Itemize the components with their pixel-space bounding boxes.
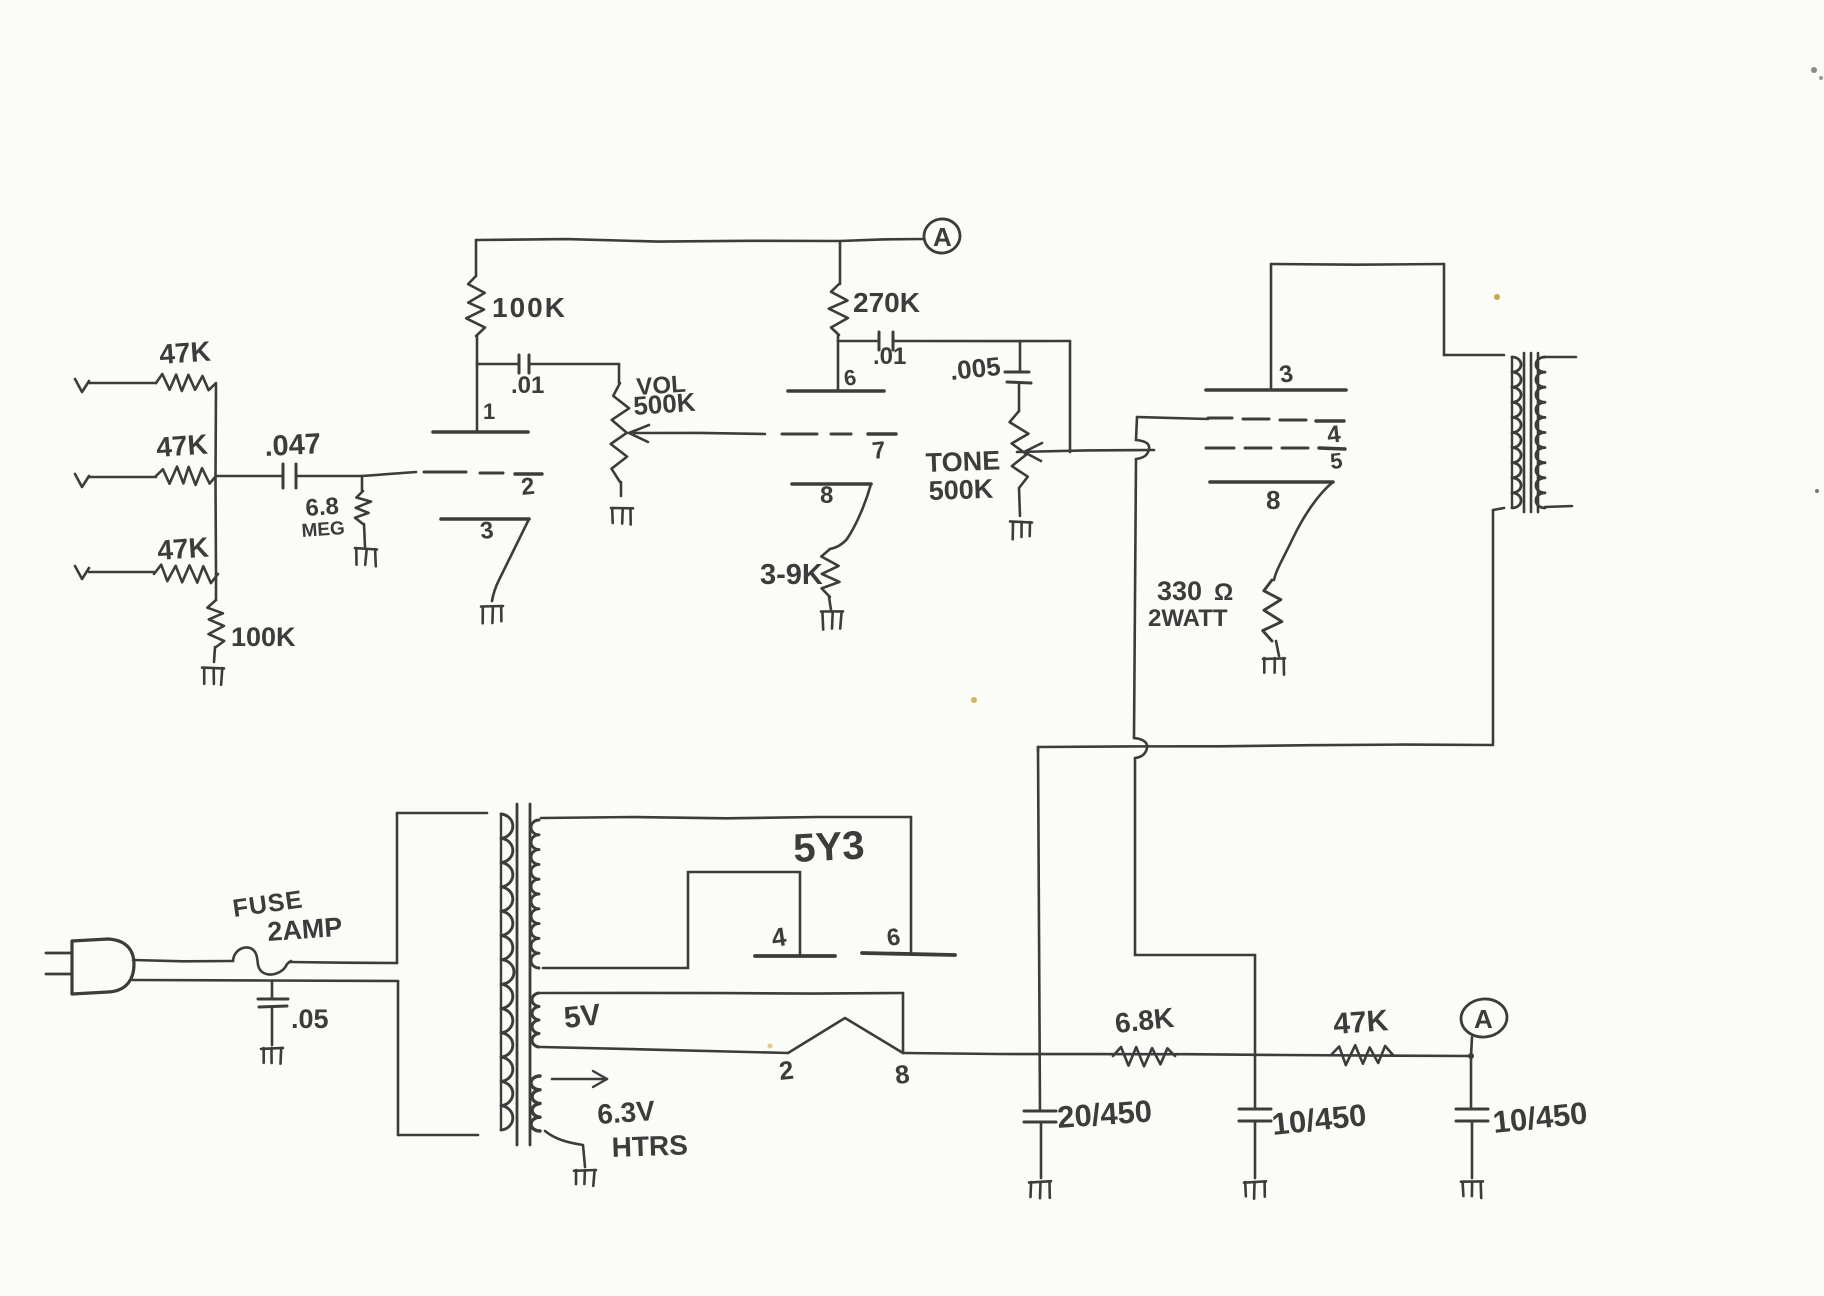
svg-text:3-9K: 3-9K <box>760 559 823 591</box>
wire cathode to 330ohm <box>1274 482 1333 580</box>
vol pot wiper arrow <box>629 425 649 433</box>
ground (6.3V) <box>574 1169 596 1172</box>
resistor R2 47K (input 2) <box>156 467 216 485</box>
wire junction to C2 <box>477 363 517 366</box>
ground (20/450) <box>1029 1181 1051 1182</box>
svg-text:A: A <box>933 222 952 252</box>
resistor R10 6.8K <box>1113 1047 1175 1066</box>
svg-text:2WATT: 2WATT <box>1148 605 1228 632</box>
wire C2 to volume pot <box>531 363 619 366</box>
output transformer secondary <box>1536 357 1545 508</box>
screen feed wire with crossover hops <box>1136 417 1137 440</box>
svg-text:Ω: Ω <box>1214 579 1233 606</box>
5Y3 plate pin 6 <box>862 953 955 955</box>
svg-text:270K: 270K <box>853 287 920 318</box>
input jack 1 <box>75 379 89 392</box>
ground (10/450) <box>1244 1181 1266 1182</box>
resistor R8 3-9K <box>821 549 839 597</box>
wire input3 to R3 <box>89 571 154 574</box>
capacitor C4 .005 <box>1019 341 1022 370</box>
svg-text:47K: 47K <box>156 531 209 566</box>
svg-text:.047: .047 <box>264 428 322 463</box>
wire input2 to R2 <box>89 476 156 479</box>
svg-text:6.8: 6.8 <box>305 493 340 522</box>
wire plate to 100K junction <box>476 364 479 432</box>
PT 6.3V winding <box>531 1076 540 1131</box>
svg-text:6.8K: 6.8K <box>1113 1002 1175 1039</box>
wire B+ top run (node A) <box>476 239 840 242</box>
triode V1b cathode pin 8 <box>792 482 871 486</box>
svg-text:.01: .01 <box>511 372 544 399</box>
svg-text:3: 3 <box>479 517 495 545</box>
output tube screen pin 4 (dashed) <box>1137 417 1208 419</box>
svg-text:47K: 47K <box>158 335 211 370</box>
plug prong 2 <box>46 973 72 976</box>
ground (10/450 node A) <box>1461 1180 1483 1183</box>
resistor R3 47K (input 3) <box>154 565 218 583</box>
AC neutral wire <box>133 980 398 981</box>
HV winding bottom lead to 5Y3 pin 4 <box>543 967 688 970</box>
OT primary bottom lead <box>1493 508 1504 510</box>
capacitor C3 .01 <box>878 332 881 350</box>
capacitor C1 .047 <box>282 464 285 488</box>
wire cathode to ground <box>492 519 529 601</box>
5Y3 plate pin 4 <box>755 954 835 958</box>
PT primary bus <box>396 813 399 963</box>
svg-text:500K: 500K <box>632 387 696 421</box>
ground (cathode V1a) <box>481 605 503 608</box>
svg-text:2: 2 <box>520 473 536 501</box>
svg-text:MEG: MEG <box>301 518 346 542</box>
wire tone wiper to output grid <box>1017 450 1154 452</box>
svg-text:A: A <box>1474 1004 1493 1034</box>
power transformer primary winding <box>500 814 502 1130</box>
OT secondary leads <box>1545 356 1576 359</box>
wire C3 to tone node <box>895 340 1070 343</box>
output transformer core <box>1523 353 1526 512</box>
svg-text:20/450: 20/450 <box>1056 1093 1153 1135</box>
potentiometer VOL 500K <box>618 364 621 383</box>
svg-text:330: 330 <box>1157 576 1202 606</box>
capacitor C6 20/450 <box>1037 747 1040 751</box>
svg-text:47K: 47K <box>1332 1004 1390 1041</box>
wire input mixing bus <box>214 385 217 574</box>
capacitor C2 .01 <box>518 355 521 373</box>
plug prong 1 <box>46 952 72 955</box>
6.3V winding bottom lead <box>545 1131 585 1167</box>
triode V1a grid pin 2 (dashed) <box>424 471 466 474</box>
wire B+ node1 run <box>1038 745 1493 747</box>
svg-text:47K: 47K <box>155 428 208 463</box>
svg-text:8: 8 <box>820 482 833 509</box>
resistor R11 47K (dropping) <box>1331 1045 1393 1065</box>
capacitor C7 10/450 <box>1254 1056 1257 1109</box>
input jack 2 <box>75 474 89 487</box>
ground (vol pot) <box>611 507 633 510</box>
ground (tone pot) <box>1010 521 1032 522</box>
wire plate junction to C3 <box>838 340 877 343</box>
resistor R7 270K <box>837 335 840 341</box>
5V bottom lead to pin 2 <box>541 1047 788 1053</box>
capacitor C5 .05 (line cap) <box>271 981 274 999</box>
svg-text:1: 1 <box>483 399 495 424</box>
input jack 3 <box>75 566 89 579</box>
AC hot wire with fuse <box>133 960 233 961</box>
PT HV secondary winding <box>531 820 539 968</box>
5V top lead to pin 8 <box>541 992 903 995</box>
svg-text:100K: 100K <box>492 292 567 323</box>
tone pot wiper arrow <box>1024 443 1042 452</box>
output transformer primary <box>1511 357 1513 508</box>
paper specks (decorative) <box>1811 67 1817 73</box>
PT 5V winding <box>532 993 539 1047</box>
svg-text:2AMP: 2AMP <box>266 912 343 947</box>
wire wiper to V1b grid (solid then dashed) <box>634 433 765 434</box>
ground (3-9K) <box>821 610 843 613</box>
B+ rail from rectifier <box>903 1053 1470 1056</box>
triode V1b grid pin 7 <box>868 432 896 435</box>
ground (.05) <box>261 1048 283 1049</box>
resistor R9 330 ohm 2 WATT <box>1263 580 1282 641</box>
resistor R5 6.8 MEG <box>361 476 364 491</box>
svg-text:8: 8 <box>1266 485 1280 515</box>
svg-text:.01: .01 <box>873 343 906 370</box>
potentiometer TONE 500K <box>1018 383 1021 411</box>
5Y3 filament pins 2-8 <box>788 1018 903 1053</box>
triode V1b plate pin 6 <box>788 389 884 393</box>
wire node A to rail <box>1471 1037 1472 1056</box>
wire input1 to R1 <box>89 382 156 385</box>
6.3V arrow to heaters <box>552 1078 607 1081</box>
svg-text:100K: 100K <box>231 622 296 652</box>
HV winding top lead to 5Y3 pin 6 <box>541 817 911 818</box>
resistor R1 47K (input 1) <box>156 374 216 391</box>
svg-text:6.3V: 6.3V <box>596 1095 656 1130</box>
svg-text:7: 7 <box>871 437 887 465</box>
ground (6.8MEG) <box>355 548 377 549</box>
resistor R4 100K (grid load) <box>215 574 218 600</box>
wire tone node down to wiper <box>1069 341 1072 452</box>
output tube grid pin 5 (dashed) <box>1206 447 1234 450</box>
ground (100K) <box>202 666 224 669</box>
wire plate to 270K junction <box>837 341 840 391</box>
AC plug <box>72 939 134 994</box>
wire bus to C1 <box>216 475 281 478</box>
capacitor C8 10/450 (node A) <box>1470 1056 1473 1109</box>
svg-text:.005: .005 <box>948 351 1001 386</box>
triode V1a cathode pin 3 <box>441 517 529 521</box>
node A (power) <box>1459 997 1509 1040</box>
output tube plate pin 3 <box>1206 388 1346 392</box>
svg-text:5Y3: 5Y3 <box>792 823 865 871</box>
svg-text:HTRS: HTRS <box>611 1129 688 1163</box>
wire plate to output transformer <box>1270 264 1273 390</box>
svg-text:5: 5 <box>1329 448 1344 474</box>
power transformer core <box>516 804 519 1145</box>
wire C1 to 6.8MEG node <box>298 475 362 478</box>
node A (top) <box>922 217 962 256</box>
ground (330 ohm) <box>1263 657 1285 660</box>
svg-text:5V: 5V <box>562 998 602 1035</box>
resistor R6 100K (plate load) <box>475 240 478 276</box>
svg-text:500K: 500K <box>928 474 994 506</box>
triode V1a plate pin 1 <box>433 430 528 434</box>
output tube cathode pin 8 <box>1210 480 1333 484</box>
wire cathode to 3-9K <box>830 484 871 549</box>
svg-text:.05: .05 <box>291 1004 329 1034</box>
